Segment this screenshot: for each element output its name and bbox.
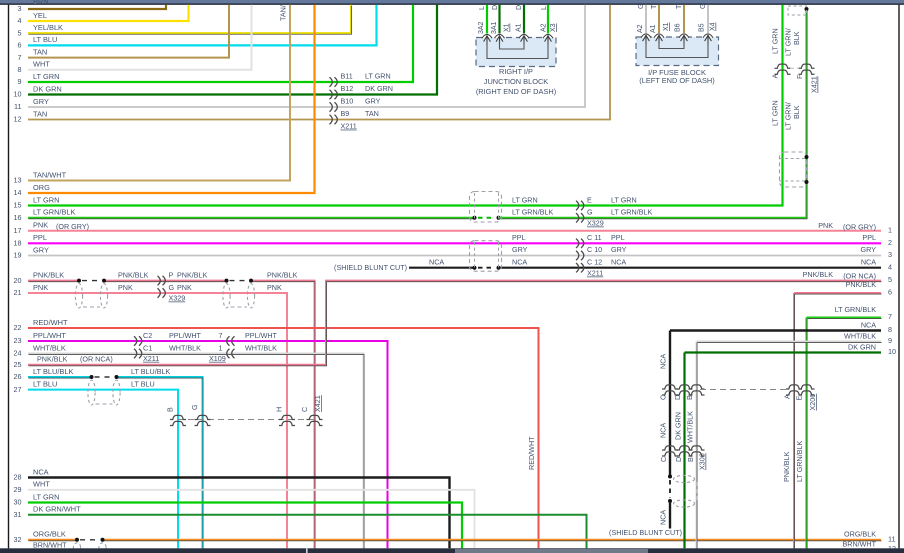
svg-text:RED/WHT: RED/WHT	[527, 436, 536, 470]
svg-text:DK GRN: DK GRN	[365, 84, 393, 93]
wire 8 WHT	[18, 5, 252, 74]
svg-text:24: 24	[14, 349, 22, 358]
svg-text:8: 8	[18, 65, 22, 74]
svg-text:P: P	[169, 270, 174, 279]
svg-text:ORG: ORG	[33, 183, 50, 192]
svg-text:LT GRN/BLK: LT GRN/BLK	[33, 208, 76, 217]
svg-text:D: D	[673, 395, 682, 400]
svg-text:5: 5	[18, 28, 22, 37]
svg-text:B12: B12	[341, 84, 354, 93]
junction dots on LT GRN/BLK wire	[805, 155, 809, 159]
svg-text:BLK: BLK	[792, 105, 801, 119]
svg-text:23: 23	[14, 336, 22, 345]
svg-text:1: 1	[888, 225, 892, 234]
wire 20 PNK/BLK (shield pair, X329 pin P, down to X421 pin C)	[14, 270, 316, 549]
svg-text:A1: A1	[516, 23, 523, 32]
svg-text:25: 25	[14, 360, 22, 369]
wire 10 DK GRN through connector X211	[14, 5, 438, 99]
svg-text:G: G	[638, 4, 645, 9]
svg-text:BLK: BLK	[792, 31, 801, 45]
dashed pass-through box on rows 15/16	[470, 192, 502, 223]
svg-text:WHT/BLK: WHT/BLK	[33, 343, 66, 352]
svg-text:LT GRN: LT GRN	[33, 195, 59, 204]
svg-text:3: 3	[888, 250, 892, 259]
svg-text:LT BLU/BLK: LT BLU/BLK	[33, 367, 73, 376]
svg-text:X1: X1	[504, 23, 511, 32]
svg-text:(OR GRY): (OR GRY)	[843, 223, 876, 232]
svg-text:LT GRN/BLK: LT GRN/BLK	[795, 441, 804, 482]
svg-text:3: 3	[18, 4, 22, 13]
connector block: RIGHT I/P JUNCTION BLOCK	[476, 5, 557, 96]
wire 3 BRN	[18, 0, 167, 13]
svg-text:RED/WHT: RED/WHT	[33, 318, 68, 327]
svg-text:B: B	[686, 457, 695, 462]
svg-text:YEL: YEL	[33, 11, 47, 20]
svg-text:WHT: WHT	[33, 60, 50, 69]
svg-text:6: 6	[888, 288, 892, 297]
svg-text:LT GRN/BLK: LT GRN/BLK	[835, 305, 876, 314]
svg-text:26: 26	[14, 372, 22, 381]
wire 19 GRY (left to X211 pin C10, to right edge)	[14, 245, 893, 260]
connector block: I/P FUSE BLOCK	[636, 4, 719, 85]
wire 15 LT GRN (left to X329 pin E, up right side)	[14, 5, 783, 210]
svg-text:G: G	[190, 404, 199, 410]
wire 24 WHT/BLK (X211 pin C1, X109 pin 1, down at x363)	[14, 343, 365, 549]
svg-text:19: 19	[14, 251, 22, 260]
svg-text:22: 22	[14, 323, 22, 332]
svg-text:G: G	[700, 4, 707, 9]
svg-text:7: 7	[18, 53, 22, 62]
svg-text:LT GRN/BLK: LT GRN/BLK	[512, 208, 553, 217]
wire 28 NCA (down at x449)	[14, 467, 450, 548]
svg-text:PNK: PNK	[33, 221, 48, 230]
svg-text:JUNCTION BLOCK: JUNCTION BLOCK	[484, 77, 549, 86]
svg-text:D: D	[516, 5, 523, 10]
svg-text:BRN: BRN	[33, 0, 49, 6]
svg-text:B5: B5	[699, 23, 706, 32]
svg-text:PPL/WHT: PPL/WHT	[33, 331, 66, 340]
svg-text:PNK: PNK	[267, 283, 282, 292]
svg-text:8: 8	[888, 325, 892, 334]
svg-text:PNK/BLK: PNK/BLK	[33, 270, 64, 279]
wire 9 LT GRN through connector X211	[18, 5, 414, 87]
svg-text:LT GRN: LT GRN	[611, 195, 637, 204]
svg-text:NCA: NCA	[512, 258, 527, 267]
svg-text:X421: X421	[313, 395, 322, 412]
wire right-6 PNK/BLK (right edge, down at x795 through X206 pin A)	[782, 280, 892, 549]
svg-text:29: 29	[14, 485, 22, 494]
svg-text:YEL/BLK: YEL/BLK	[33, 23, 63, 32]
svg-text:TAN/WHT: TAN/WHT	[33, 170, 67, 179]
svg-text:ORG/BLK: ORG/BLK	[844, 530, 876, 539]
svg-text:LT GRN: LT GRN	[33, 492, 59, 501]
svg-text:PNK: PNK	[177, 283, 192, 292]
svg-text:4: 4	[18, 16, 22, 25]
svg-text:A2: A2	[541, 23, 548, 32]
svg-text:G: G	[587, 208, 593, 217]
svg-text:B: B	[685, 395, 694, 400]
svg-text:TAN: TAN	[33, 47, 47, 56]
svg-text:GRY: GRY	[33, 97, 49, 106]
svg-text:T: T	[676, 4, 683, 9]
svg-text:T: T	[651, 4, 658, 9]
svg-text:3A1: 3A1	[491, 21, 498, 34]
svg-text:12: 12	[14, 115, 22, 124]
wire 21 PNK (X329 pin G, down to X421 pin H)	[14, 283, 288, 549]
svg-text:13: 13	[14, 176, 22, 185]
wire right-10 DK GRN (right edge, down at x684)	[674, 342, 897, 548]
svg-text:PPL: PPL	[33, 233, 47, 242]
svg-text:PNK/BLK: PNK/BLK	[37, 355, 68, 364]
svg-text:NCA: NCA	[33, 467, 49, 476]
svg-text:DK GRN: DK GRN	[848, 342, 876, 351]
wire right-9 WHT/BLK (right edge, down at x696)	[686, 331, 893, 549]
svg-text:C 11: C 11	[587, 233, 602, 242]
svg-text:X4: X4	[710, 22, 717, 31]
connector X306 (pins C D B)	[659, 446, 707, 470]
svg-text:LT GRN: LT GRN	[365, 72, 391, 81]
svg-text:NCA: NCA	[861, 258, 876, 267]
svg-text:PNK: PNK	[118, 283, 133, 292]
svg-text:PPL: PPL	[512, 233, 526, 242]
svg-text:WHT/BLK: WHT/BLK	[169, 344, 201, 353]
svg-text:PNK/BLK: PNK/BLK	[782, 451, 791, 482]
svg-text:X211: X211	[341, 122, 357, 131]
svg-text:C 12: C 12	[587, 258, 602, 267]
svg-text:17: 17	[14, 226, 22, 235]
svg-text:27: 27	[14, 385, 22, 394]
svg-text:B6: B6	[675, 23, 682, 32]
svg-text:G: G	[169, 283, 175, 292]
svg-text:11: 11	[888, 534, 895, 543]
svg-text:LT GRN: LT GRN	[771, 28, 780, 54]
svg-text:NCA: NCA	[659, 510, 668, 525]
svg-text:LT GRN: LT GRN	[33, 72, 59, 81]
top toolbar bar	[0, 0, 904, 3]
svg-text:X421: X421	[810, 76, 819, 93]
svg-text:LT GRN/BLK: LT GRN/BLK	[611, 208, 652, 217]
svg-text:2: 2	[888, 238, 892, 247]
wire right-8 NCA (right edge, down at x670, shield blunt cut)	[609, 320, 892, 537]
wire 27 LT BLU (down at x178 to X421 pin B)	[14, 379, 179, 548]
svg-text:L: L	[479, 6, 486, 10]
svg-text:5: 5	[888, 275, 892, 284]
svg-text:LT BLU: LT BLU	[33, 379, 57, 388]
svg-text:A2: A2	[637, 24, 644, 33]
svg-text:9: 9	[18, 77, 22, 86]
svg-text:PNK/BLK: PNK/BLK	[846, 280, 877, 289]
svg-text:X3: X3	[550, 23, 557, 32]
svg-text:B11: B11	[341, 72, 353, 81]
svg-text:(OR GRY): (OR GRY)	[56, 222, 89, 231]
svg-text:PNK/BLK: PNK/BLK	[177, 270, 208, 279]
svg-text:C: C	[659, 395, 668, 400]
svg-text:A1: A1	[650, 24, 657, 33]
in-line connector row (pins C D B) above X306	[659, 385, 791, 400]
svg-text:(RIGHT END OF DASH): (RIGHT END OF DASH)	[476, 87, 556, 96]
svg-text:C: C	[300, 407, 309, 412]
svg-text:BRN/WHT: BRN/WHT	[33, 541, 67, 550]
connector X421 top (pins A F) on LT GRN wires	[771, 28, 819, 130]
svg-text:32: 32	[14, 535, 22, 544]
svg-text:PNK/BLK: PNK/BLK	[267, 270, 298, 279]
svg-text:15: 15	[14, 201, 22, 210]
svg-text:31: 31	[14, 510, 22, 519]
wire 25 PNK/BLK (OR NCA) (left edge up at x326 to right edge)	[14, 270, 893, 369]
svg-text:C1: C1	[143, 344, 152, 353]
wire 29 WHT (down at x474)	[14, 480, 475, 549]
svg-text:7: 7	[219, 331, 223, 340]
svg-text:16: 16	[14, 213, 22, 222]
svg-text:A: A	[771, 74, 780, 79]
svg-text:RIGHT I/P: RIGHT I/P	[499, 67, 533, 76]
dashed branch box on right LT GRN wires	[780, 152, 807, 187]
svg-text:DK GRN: DK GRN	[33, 84, 62, 93]
svg-text:NCA: NCA	[611, 258, 626, 267]
svg-text:GRY: GRY	[33, 245, 49, 254]
svg-text:14: 14	[14, 188, 22, 197]
wire 33 BRN/WHT labels (line hidden by scrollbar)	[33, 540, 877, 550]
svg-text:GRY: GRY	[512, 245, 528, 254]
shield drain loops rows 32/33	[73, 538, 106, 552]
wire 5 YEL/BLK	[18, 5, 352, 38]
svg-text:11: 11	[14, 102, 21, 111]
svg-text:LT GRN: LT GRN	[771, 100, 780, 126]
wire 32 ORG/BLK (shield pair, straight across)	[14, 530, 896, 544]
svg-text:PNK/BLK: PNK/BLK	[803, 270, 834, 279]
svg-text:30: 30	[14, 498, 22, 507]
svg-text:10: 10	[888, 347, 896, 356]
svg-text:WHT: WHT	[33, 480, 50, 489]
svg-text:NCA: NCA	[861, 320, 876, 329]
wire 13 TAN/WHT	[14, 5, 291, 185]
svg-text:(SHIELD BLUNT CUT): (SHIELD BLUNT CUT)	[334, 263, 407, 272]
shield drain loops rows 26/27	[88, 375, 120, 405]
svg-text:D: D	[492, 5, 499, 10]
connector X421 in-line (pins B G H C)	[166, 395, 323, 425]
wire 14 ORG	[14, 5, 315, 197]
svg-text:(OR NCA): (OR NCA)	[80, 355, 113, 364]
svg-text:H: H	[275, 407, 284, 412]
svg-text:C2: C2	[143, 331, 152, 340]
svg-text:WHT/BLK: WHT/BLK	[844, 331, 876, 340]
svg-text:B9: B9	[341, 109, 350, 118]
svg-text:NCA: NCA	[659, 354, 668, 369]
svg-text:PPL: PPL	[862, 233, 876, 242]
svg-text:A: A	[783, 394, 792, 399]
svg-text:TAN: TAN	[33, 109, 47, 118]
svg-text:WHT/BLK: WHT/BLK	[686, 411, 695, 443]
wire right-7 LT GRN/BLK (right edge, down at x806 through X206 pin E)	[795, 305, 892, 549]
shield drain loops rows 20/21 left	[75, 279, 107, 308]
svg-text:NCA: NCA	[659, 423, 668, 438]
svg-text:F: F	[795, 74, 804, 79]
svg-text:WHT/BLK: WHT/BLK	[245, 344, 277, 353]
wire 22 RED/WHT (down at x538 to bottom)	[14, 318, 539, 549]
wire 4 YEL	[18, 5, 189, 25]
svg-text:C 10: C 10	[587, 245, 602, 254]
wire 16 LT GRN/BLK (left to X329 pin G, up right side)	[14, 7, 809, 223]
svg-text:DK GRN/WHT: DK GRN/WHT	[33, 505, 81, 514]
bottom scrollbar	[0, 548, 904, 553]
svg-text:D: D	[674, 457, 683, 462]
svg-text:GRY: GRY	[611, 245, 627, 254]
svg-text:3A2: 3A2	[478, 21, 485, 34]
wire 30 LT GRN (down at x462)	[14, 492, 463, 548]
svg-text:TAN: TAN	[365, 109, 379, 118]
svg-text:C: C	[659, 457, 668, 462]
svg-text:BRN/WHT: BRN/WHT	[842, 540, 876, 549]
svg-text:PNK: PNK	[33, 283, 48, 292]
svg-text:(LEFT END OF DASH): (LEFT END OF DASH)	[639, 76, 714, 85]
svg-text:L: L	[541, 6, 548, 10]
svg-text:LT BLU: LT BLU	[131, 379, 155, 388]
svg-text:10: 10	[14, 90, 22, 99]
svg-text:PPL: PPL	[611, 233, 625, 242]
wire 23 PPL/WHT (X211 pin C2, X109 pin 7, down at x387)	[14, 331, 388, 549]
svg-text:PNK/BLK: PNK/BLK	[118, 270, 149, 279]
svg-text:X211: X211	[143, 354, 159, 363]
svg-text:B: B	[166, 407, 175, 412]
wire 18 PPL (left to X211 pin C11, to right edge)	[14, 233, 893, 248]
svg-text:1: 1	[219, 344, 223, 353]
svg-text:ORG/BLK: ORG/BLK	[33, 530, 66, 539]
svg-text:LT GRN: LT GRN	[512, 195, 538, 204]
svg-text:X306: X306	[698, 453, 707, 470]
svg-text:DK GRN: DK GRN	[674, 412, 683, 440]
dashed pass-through box on rows 18/19/NCA	[470, 241, 502, 272]
svg-text:GRY: GRY	[861, 245, 877, 254]
svg-text:GRY: GRY	[365, 97, 381, 106]
svg-text:X1: X1	[663, 22, 670, 31]
wire 6 LT BLU	[18, 5, 377, 50]
svg-text:18: 18	[14, 239, 22, 248]
svg-text:X211: X211	[587, 269, 603, 278]
svg-text:9: 9	[888, 336, 892, 345]
svg-text:28: 28	[14, 473, 22, 482]
wire 31 DK GRN/WHT (down at x586)	[14, 505, 587, 549]
left page border	[8, 5, 10, 549]
svg-text:7: 7	[888, 312, 892, 321]
svg-text:PPL/WHT: PPL/WHT	[169, 331, 202, 340]
wire 7 TAN	[18, 5, 230, 62]
svg-text:B10: B10	[341, 97, 354, 106]
svg-text:20: 20	[14, 276, 22, 285]
svg-text:X329: X329	[169, 294, 186, 303]
svg-text:E: E	[795, 396, 804, 401]
svg-text:6: 6	[18, 41, 22, 50]
right page border	[898, 5, 900, 549]
svg-text:PNK: PNK	[818, 221, 833, 230]
wire NCA shield (blunt cut at left, X211 pin C12, to right edge)	[334, 258, 892, 273]
svg-text:NCA: NCA	[429, 258, 444, 267]
svg-text:E: E	[587, 195, 592, 204]
shield drain loops rows 20/21 right	[223, 279, 255, 308]
svg-text:TAN/: TAN/	[279, 5, 288, 21]
svg-text:X109: X109	[209, 354, 226, 363]
svg-text:LT BLU: LT BLU	[33, 35, 57, 44]
wire 12 TAN through connector X211	[14, 5, 611, 124]
dashed stub at top of LT GRN/BLK wire	[788, 6, 807, 15]
svg-text:LT BLU/BLK: LT BLU/BLK	[131, 367, 170, 376]
svg-text:X329: X329	[587, 219, 604, 228]
svg-text:PPL/WHT: PPL/WHT	[245, 331, 278, 340]
svg-text:(SHIELD BLUNT CUT): (SHIELD BLUNT CUT)	[609, 528, 682, 537]
wire 11 GRY through connector X211	[14, 5, 585, 112]
connector X206 (pins A E)	[783, 385, 818, 411]
shield drain loops right-8 NCA (horizontal)	[674, 475, 698, 507]
wire 17 PNK (OR GRY) straight across	[14, 221, 893, 235]
svg-text:4: 4	[888, 262, 892, 271]
svg-text:21: 21	[14, 288, 22, 297]
svg-text:X206: X206	[808, 394, 817, 411]
wire 26 LT BLU/BLK (shield pair, down at x202 to X421 pin G)	[14, 367, 204, 550]
